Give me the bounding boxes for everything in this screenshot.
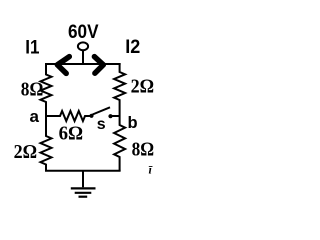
svg-text:I1: I1 bbox=[25, 37, 39, 59]
svg-text:s: s bbox=[97, 116, 106, 133]
svg-text:ī: ī bbox=[149, 163, 154, 177]
svg-text:a: a bbox=[30, 107, 40, 126]
svg-text:2Ω: 2Ω bbox=[131, 75, 155, 97]
svg-text:2Ω: 2Ω bbox=[14, 141, 37, 163]
svg-text:6Ω: 6Ω bbox=[59, 122, 84, 144]
svg-text:8Ω: 8Ω bbox=[21, 78, 44, 100]
svg-text:8Ω: 8Ω bbox=[132, 138, 155, 160]
svg-text:I2: I2 bbox=[125, 36, 140, 58]
svg-text:b: b bbox=[128, 114, 138, 132]
svg-text:60V: 60V bbox=[68, 21, 99, 43]
